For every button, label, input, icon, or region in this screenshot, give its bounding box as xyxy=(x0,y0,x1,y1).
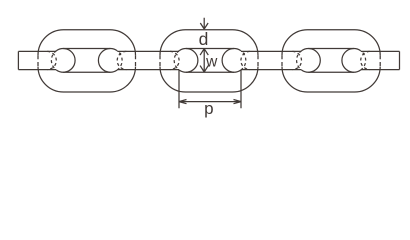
hidden end cap of bar link at left link pin B (dashed) xyxy=(117,51,126,69)
bar bottom edge segments xyxy=(18,69,399,71)
middle link pin circle B hidden arc (dashed) xyxy=(241,51,246,71)
right link pin circle A hidden arc (dashed) xyxy=(297,51,302,71)
dimension p: dimension line with arrowheads xyxy=(179,100,241,104)
dimension p: extension lines from pin points xyxy=(179,70,241,108)
hidden end cap of bar link at left link pin A (dashed) xyxy=(47,51,56,69)
svg-text:d: d xyxy=(199,29,209,49)
dimension w: double arrow between inner edges xyxy=(200,49,208,72)
svg-text:w: w xyxy=(205,53,218,70)
bar left end cap xyxy=(17,51,19,69)
middle flat link: outer outline solid portions xyxy=(160,30,258,92)
right link pin circle A solid arc xyxy=(302,48,321,72)
middle flat link: inner opening top and bottom edges xyxy=(186,49,234,73)
right flat link: outer sides hidden behind bar (dashed) xyxy=(282,55,380,66)
svg-text:p: p xyxy=(204,99,213,118)
hidden end cap of bar link at right link pin B (dashed) xyxy=(361,51,370,69)
hidden end cap of bar link at middle link pin A (dashed) xyxy=(170,51,179,69)
bar right end cap xyxy=(399,51,401,69)
right link pin circle B hidden arc (dashed) xyxy=(361,51,366,71)
dimension d: down arrow to link top edge xyxy=(200,18,208,29)
bar: perpendicular chain links seen edge-on (straight run) xyxy=(18,51,399,69)
bar top edge segments xyxy=(18,50,399,52)
left link pin circle B hidden arc (dashed) xyxy=(117,51,122,71)
middle link pin circle A hidden arc (dashed) xyxy=(174,51,179,71)
left link pin circle A hidden arc (dashed) xyxy=(51,51,56,71)
hidden end cap of bar link at middle link pin B (dashed) xyxy=(241,51,250,69)
right flat link: inner opening top and bottom edges xyxy=(308,49,353,73)
left link pin circle A solid arc xyxy=(57,49,76,73)
middle link pin circle A solid arc xyxy=(179,48,198,72)
hidden end cap of bar link at right link pin A (dashed) xyxy=(292,51,301,69)
left flat link: outer outline solid portions xyxy=(38,30,136,92)
right link pin circle B solid arc xyxy=(342,48,361,72)
right flat link: outer outline solid portions xyxy=(282,30,380,92)
middle link pin circle B solid arc xyxy=(222,48,241,72)
left link pin circle B solid arc xyxy=(98,48,117,72)
left flat link: inner opening top and bottom edges xyxy=(63,49,110,73)
middle flat link: outer sides hidden behind bar (dashed) xyxy=(160,55,258,66)
left flat link: outer sides hidden behind bar (dashed) xyxy=(38,55,136,66)
